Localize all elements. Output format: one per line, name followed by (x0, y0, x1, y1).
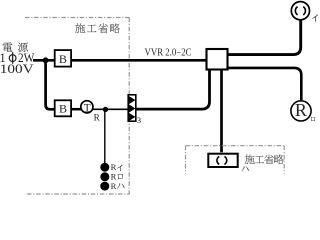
svg-text:R: R (111, 172, 117, 182)
svg-text:3: 3 (137, 115, 141, 125)
lamp: square hook ceiling rose ハ (rect with broken inner circle) (208, 154, 237, 167)
node: omitted-zone boundary bottom dashed line (27, 193, 130, 195)
wire: source feed to joint box (top main run) (33, 59, 206, 62)
joint box (junction box) (207, 49, 228, 70)
svg-text:R: R (94, 112, 101, 122)
wire: relay box to joint box (lower run) (136, 69, 209, 109)
svg-text:B: B (59, 101, 67, 115)
label: Rイ (111, 162, 123, 172)
svg-text:R: R (111, 181, 117, 191)
wire: drop from source tap down to breaker B2 (46, 60, 55, 109)
svg-text:R: R (111, 162, 117, 172)
label: イ (312, 14, 318, 21)
label: 電源 1φ2W 100V power source (0, 42, 35, 76)
switch: remote-control switch Rロ (dot) (100, 172, 109, 181)
wire: transformer T to relay box (93, 108, 129, 110)
label: Rロ (111, 172, 123, 182)
breaker B2 (box with B) (55, 100, 71, 116)
label: ハ (241, 166, 248, 171)
wire: joint box down to ceiling light ハ (220, 69, 223, 152)
lamp: hook ceiling rose イ (circle with broken inner circle) (291, 2, 309, 20)
wire: thin dropper from junction to remote switches (104, 109, 106, 163)
svg-text:100V: 100V (0, 62, 34, 76)
node: omitted-zone ハ boundary right dashed line (283, 146, 285, 174)
label: 施工省略 (bottom omitted zone) (245, 154, 284, 164)
node: omitted-zone boundary right dashed line (128, 18, 130, 195)
svg-text:B: B (59, 52, 67, 66)
node: omitted-zone ハ boundary top dashed line (186, 145, 285, 147)
junction: source tap dot (43, 57, 49, 63)
lamp receptacle R (circle with R) ロ (291, 100, 311, 121)
junction: switch-branch dot after T (103, 107, 108, 112)
svg-text:T: T (84, 103, 91, 115)
node: omitted-zone ハ boundary left dashed line (185, 146, 187, 174)
node: omitted-zone boundary top dashed line (25, 17, 130, 19)
label: 施工省略 (top omitted zone) (75, 23, 120, 33)
symbol: phase phi (9, 55, 16, 62)
relay unit: box with 3 remote-control relays (black triangles), qty 3 (128, 95, 141, 125)
switch: remote-control switch Rイ (dot) (100, 163, 109, 172)
label: ロ (311, 117, 316, 121)
switch: remote-control switch Rハ (dot) (100, 182, 109, 191)
svg-text:VVR 2.0−2C: VVR 2.0−2C (145, 48, 192, 59)
transformer T(R) remote-control transformer (81, 101, 101, 123)
wire: joint box to hook ceiling イ (228, 21, 301, 55)
wire: joint box to lamp receptacle ロ (228, 68, 301, 100)
breaker B1 (box with B) (55, 50, 71, 67)
label: Rハ (111, 181, 125, 191)
wire: breaker B2 to transformer T (71, 108, 82, 111)
svg-text:R: R (295, 100, 307, 120)
